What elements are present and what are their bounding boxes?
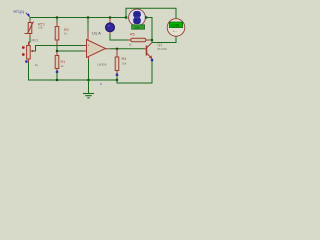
svg-text:1k: 1k bbox=[129, 43, 133, 47]
svg-text:BC108: BC108 bbox=[158, 47, 168, 51]
op-amp U1:A bbox=[83, 31, 111, 61]
svg-text:10k: 10k bbox=[122, 61, 127, 65]
resistor R1 bbox=[55, 52, 59, 72]
wire: left column to ground rail bbox=[29, 63, 118, 81]
node: rail / R2 top bbox=[56, 16, 58, 18]
ground bbox=[83, 80, 94, 98]
svg-text:RV1: RV1 bbox=[32, 39, 39, 43]
pin state: pot bottom (low) bbox=[25, 60, 27, 62]
node: R2 / minus wire bbox=[56, 50, 58, 52]
svg-text:1k: 1k bbox=[64, 32, 68, 36]
svg-text:RT1(1): RT1(1) bbox=[14, 10, 25, 14]
wire: top rail bbox=[30, 17, 126, 19]
svg-text:+ -: + - bbox=[173, 30, 177, 34]
wire: R2 bottom to minus input bbox=[57, 46, 83, 52]
LED D1 (blue, lit) bbox=[106, 18, 115, 35]
wire: R1 bottom to rail bbox=[56, 73, 58, 81]
node: output / R4 bbox=[116, 48, 118, 50]
fan readout box bbox=[132, 25, 145, 30]
pin state: R4 bottom (low) bbox=[116, 74, 118, 76]
transistor Q1 bbox=[144, 43, 153, 59]
wire: LED to R5 bbox=[110, 34, 129, 40]
resistor R2 bbox=[55, 18, 59, 46]
voltage probe RT1(1) bbox=[14, 10, 31, 18]
node: ground rail junction bbox=[87, 79, 89, 81]
svg-text:1k: 1k bbox=[61, 64, 65, 68]
svg-text:10k: 10k bbox=[38, 26, 43, 30]
node: rail / op-amp V+ bbox=[87, 16, 89, 18]
pin state: fan right bbox=[145, 16, 147, 18]
node: R5 / collector vertical bbox=[151, 39, 153, 41]
pin state: emitter (low) bbox=[151, 59, 153, 61]
svg-text:R5: R5 bbox=[130, 33, 135, 37]
resistor R4 bbox=[115, 49, 119, 74]
wire: R4 bottom to rail bbox=[116, 76, 118, 81]
pot up button bbox=[22, 46, 25, 49]
svg-text:12V: 12V bbox=[134, 26, 139, 30]
wire: emitter return bbox=[117, 61, 152, 83]
wire: over-fan to voltmeter top bbox=[126, 8, 176, 19]
background bbox=[0, 0, 191, 100]
pin state: fan left bbox=[125, 16, 127, 18]
wire: pot wiper to op-amp plus input bbox=[33, 46, 83, 52]
wire: fan right to collector vertical bbox=[146, 18, 152, 43]
wire: rail corner down to RT1 bbox=[29, 18, 31, 21]
svg-text:1k: 1k bbox=[35, 63, 39, 67]
fan motor bbox=[129, 9, 146, 26]
svg-text:LM358: LM358 bbox=[97, 63, 107, 67]
node: rail / R4 bottom bbox=[116, 79, 118, 81]
svg-text:+0.00: +0.00 bbox=[171, 24, 180, 28]
wire: op-amp V+ from rail bbox=[87, 18, 89, 32]
node: rail / R1 bottom bbox=[56, 79, 58, 81]
wire: op-amp output bbox=[110, 48, 144, 50]
voltmeter bbox=[167, 19, 185, 37]
thermistor RT1 bbox=[25, 20, 34, 38]
pot down button bbox=[22, 53, 25, 56]
resistor R5 bbox=[128, 38, 151, 42]
pin state: R1 bottom (low) bbox=[56, 71, 58, 73]
wire: RT1 to RV1 bbox=[29, 38, 30, 45]
wire: op-amp V- to ground rail bbox=[88, 60, 90, 80]
svg-text:U1:A: U1:A bbox=[92, 30, 101, 35]
marker: stray diamond bbox=[100, 83, 103, 86]
node: rail / LED D1 bbox=[109, 16, 111, 18]
wire: voltmeter bottom to collector node bbox=[152, 37, 176, 43]
potentiometer RV1 bbox=[27, 42, 33, 63]
wire: R5 to collector node bbox=[150, 39, 152, 41]
